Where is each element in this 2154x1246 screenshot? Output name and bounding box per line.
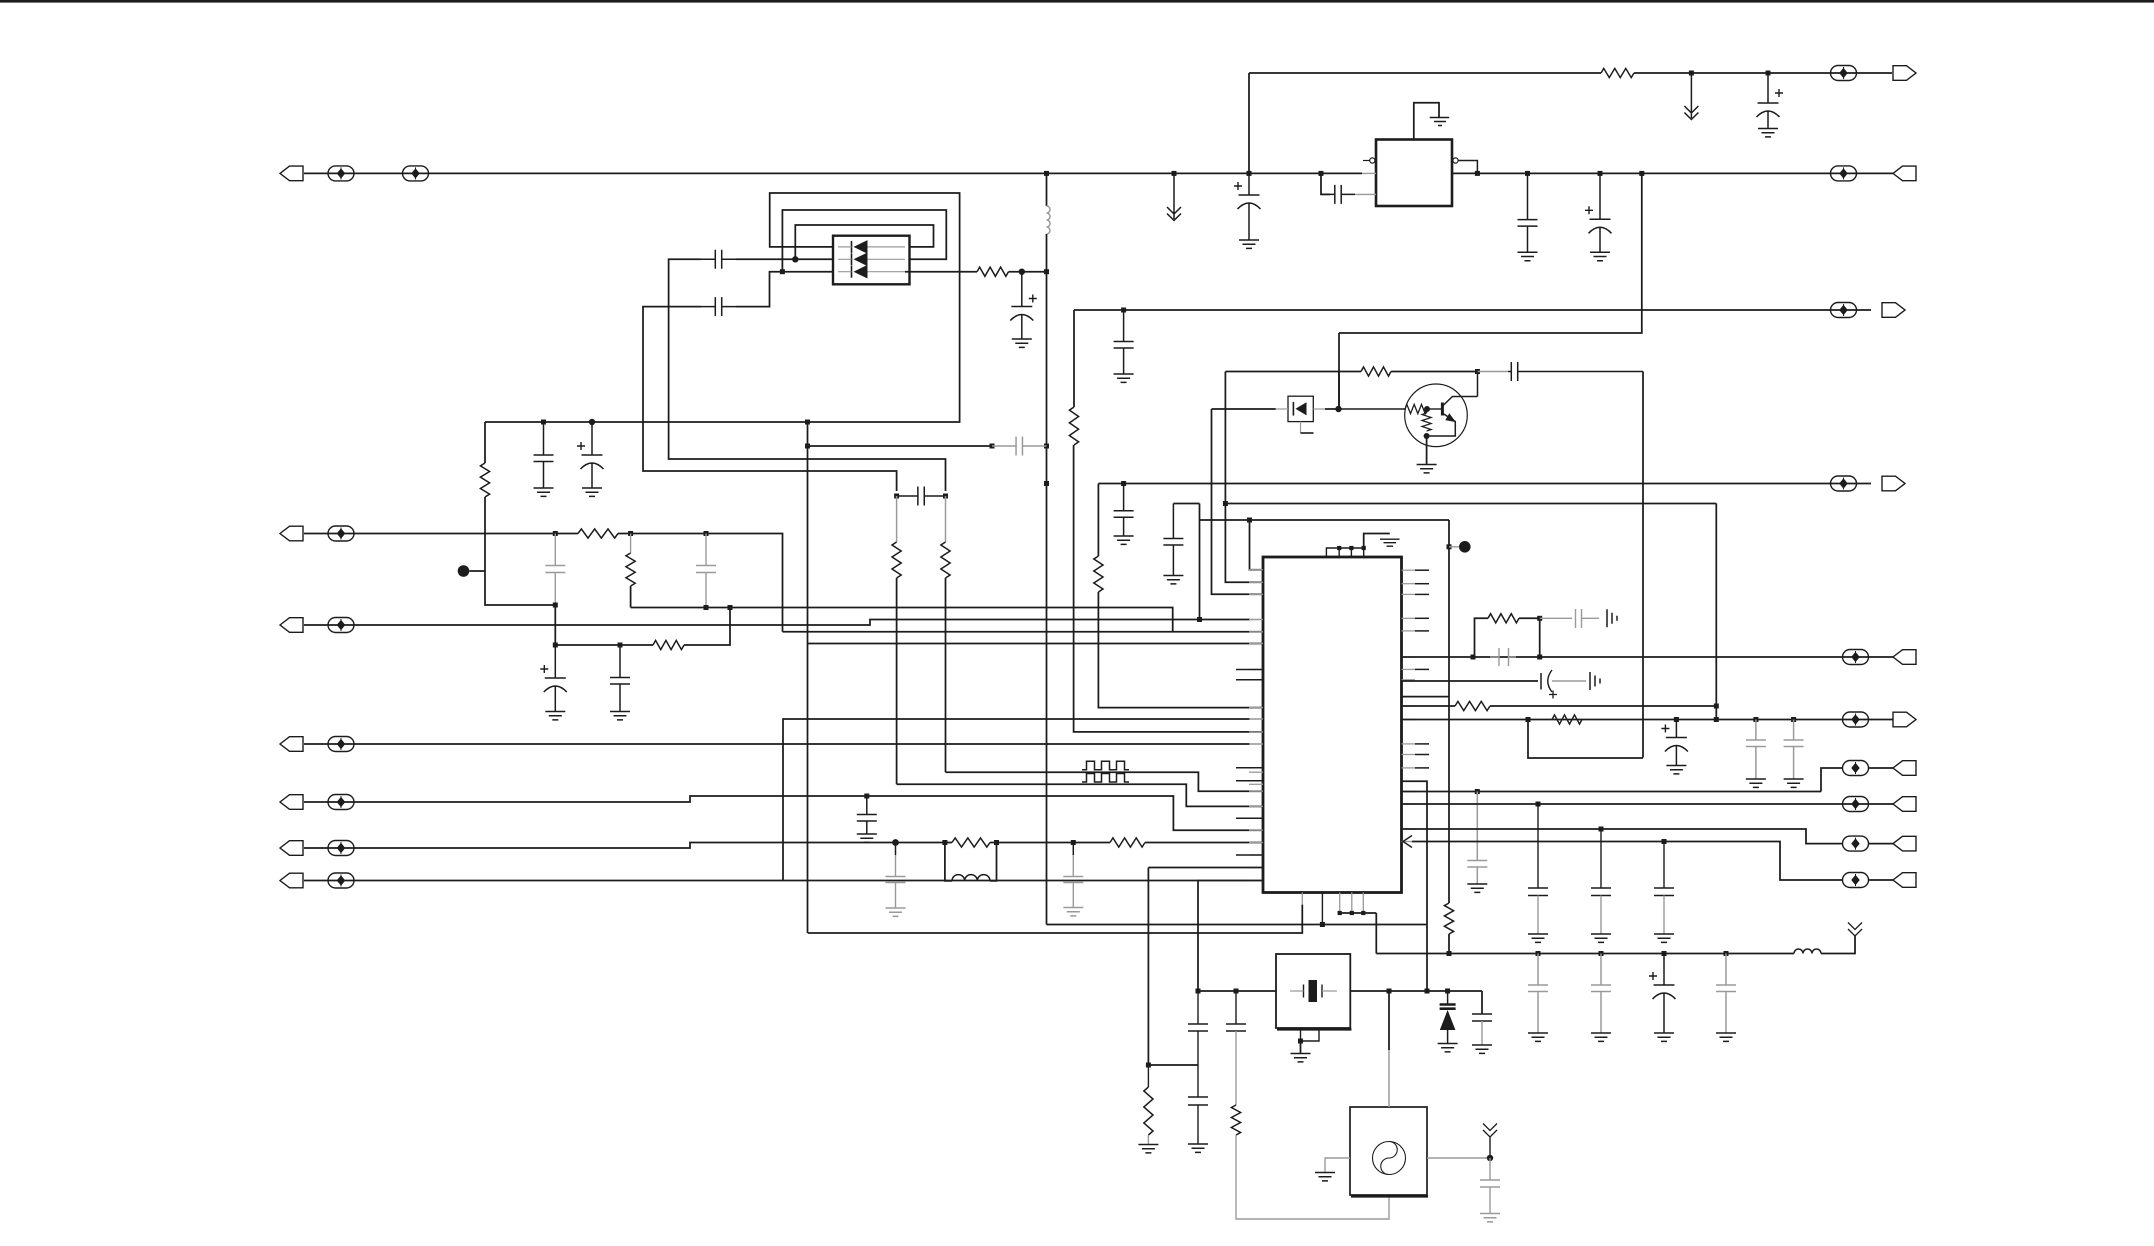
junction x555/645 bbox=[553, 643, 558, 648]
wire bus AVCC left bbox=[304, 172, 1362, 174]
ground G3 bbox=[1518, 252, 1538, 260]
oscillator X2 symbol bbox=[1373, 1142, 1406, 1175]
U1 left pin y731.9 bbox=[1249, 731, 1263, 733]
connector output arrow 1 bbox=[1893, 66, 1916, 81]
U1 right pin stub 570 bbox=[1415, 569, 1429, 571]
connector CN3 (left arrow) bbox=[280, 618, 303, 633]
ground C25 (sideways) bbox=[1590, 672, 1600, 690]
ground C30 bbox=[1528, 934, 1548, 942]
U1 left pin y818.3 bbox=[1249, 817, 1263, 819]
wire X2 out cap bbox=[1489, 1158, 1491, 1180]
inductor L1 bbox=[1047, 206, 1051, 234]
wire branch 758 bbox=[1528, 720, 1643, 759]
wire loop C left leg bbox=[736, 258, 795, 260]
capacitor C1 (electrolytic) bbox=[1758, 73, 1779, 103]
wire video out bbox=[1074, 309, 1871, 311]
wire w829 bbox=[1402, 829, 1844, 844]
U1 right pin stub 631 bbox=[1415, 630, 1429, 632]
wire x630 down bbox=[630, 534, 632, 554]
power arrow (double chevron) bbox=[1684, 73, 1698, 120]
junction w991/x1427 bbox=[1425, 989, 1430, 994]
junction bpins 1 bbox=[1338, 911, 1342, 915]
U1 left pin stub 680 bbox=[1236, 679, 1263, 681]
wire x945 to clock line bbox=[945, 578, 947, 772]
wire bias rail2 bbox=[1391, 371, 1478, 373]
node test pad bbox=[458, 565, 470, 577]
wire C31 stem bbox=[1600, 896, 1602, 935]
wire top pins to ground bbox=[1364, 534, 1390, 549]
junction w804/C30 bbox=[1536, 802, 1541, 807]
wire feed down2 bbox=[1046, 446, 1048, 484]
capacitor C12 (electrolytic) bbox=[1011, 272, 1032, 307]
diode pack D2 box bbox=[833, 236, 910, 285]
wire R19 down bbox=[1236, 1135, 1389, 1219]
resistor R10 bbox=[653, 640, 684, 649]
capacitor C16 (electrolytic) bbox=[545, 645, 566, 678]
U1 pin arrowhead bbox=[1403, 836, 1412, 848]
node pad bbox=[1459, 541, 1471, 553]
capacitor C30 bbox=[1528, 888, 1548, 896]
wire x1199 riser bbox=[1199, 504, 1201, 620]
ground G1 bbox=[1239, 240, 1259, 248]
wire row446 bbox=[808, 445, 993, 447]
wire C24 to ground bbox=[1582, 617, 1600, 619]
wire choke to diode row bbox=[1046, 234, 1048, 272]
junction w483/C22 bbox=[1121, 481, 1126, 486]
wire w1065 bbox=[1148, 1064, 1198, 1066]
ground C38 bbox=[1472, 1045, 1492, 1053]
wire drop x807 long bbox=[807, 446, 809, 933]
junction row446/C11 bbox=[990, 444, 995, 449]
U1 left pin y669.5 bbox=[1249, 669, 1263, 671]
U1 right pin y630.9 bbox=[1402, 630, 1416, 632]
capacitor C41 bbox=[1226, 1024, 1246, 1031]
junction w953/R13 bbox=[1447, 951, 1452, 956]
test point TP11 bbox=[328, 873, 354, 888]
wire top rail bbox=[1249, 72, 1601, 74]
wire pin867 bbox=[1148, 867, 1263, 869]
wire bus to C2 bbox=[1321, 173, 1330, 194]
U1 right pin y781.2 bbox=[1402, 780, 1416, 782]
wire Q1 int R top bbox=[1426, 409, 1428, 413]
junction X2 out bbox=[1487, 1155, 1493, 1161]
U1 right pin y696.6 bbox=[1402, 696, 1416, 698]
wire w643 from drop x807 bbox=[808, 643, 1264, 645]
U1 right pin y767.9 bbox=[1402, 767, 1416, 769]
ground G15 bbox=[1746, 779, 1766, 787]
junction top pins 2 bbox=[1349, 546, 1353, 550]
wire R15 to b bbox=[1519, 618, 1540, 657]
wire x1236 bbox=[1235, 991, 1237, 1024]
junction w953/C36 bbox=[1724, 951, 1729, 956]
junction Q1 emitter node bbox=[1424, 433, 1430, 439]
junction C13 left bbox=[894, 494, 899, 499]
wire x1716 bbox=[1715, 504, 1717, 721]
U1 right pin stub 594 bbox=[1415, 593, 1429, 595]
junction L3/riser bbox=[1197, 617, 1202, 622]
wire R10 row bbox=[1869, 879, 1893, 881]
transistor Q1 emitter arrowhead bbox=[1445, 413, 1456, 422]
wire x1538 upper bbox=[1537, 804, 1539, 888]
wire riser to top rail bbox=[1248, 73, 1250, 173]
junction rail/C1 bbox=[1766, 71, 1771, 76]
capacitor C19 bbox=[886, 877, 906, 883]
U1 left pin stub 767 bbox=[1236, 767, 1263, 769]
wire C41 down bbox=[1235, 1031, 1237, 1105]
transistor Q1 circle bbox=[1405, 384, 1468, 447]
wire D1 lead inside bbox=[1276, 408, 1325, 410]
wire bpin bus bbox=[1340, 912, 1377, 914]
connector input arrow 7 bbox=[1893, 761, 1916, 776]
wire branch down bbox=[1339, 173, 1642, 333]
junction w657 b bbox=[1537, 655, 1542, 660]
wire w520 over IC bbox=[1200, 519, 1450, 521]
U1 right pin y706 bbox=[1402, 705, 1416, 707]
wire C38 corner bbox=[1481, 991, 1483, 1014]
connector input arrow 5 bbox=[1893, 650, 1916, 665]
U1 right pin stub 744 bbox=[1415, 743, 1429, 745]
test point TP7 bbox=[328, 618, 354, 633]
diode D2-1 bbox=[851, 241, 853, 253]
wire w953 bbox=[1376, 953, 1794, 955]
connector CN2 (left arrow) bbox=[280, 526, 303, 541]
junction w829/C31 bbox=[1599, 827, 1604, 832]
crystal X1 symbol bbox=[1304, 985, 1323, 998]
U1 right pin stub 618 bbox=[1415, 617, 1429, 619]
wire C20 stem2 bbox=[1072, 855, 1074, 908]
capacitor C18 bbox=[857, 796, 877, 834]
U1 top pin bus bbox=[1326, 548, 1363, 557]
U1 left pin y784.3 bbox=[1249, 783, 1263, 785]
capacitor C22 bbox=[1114, 484, 1134, 537]
wire diode row3 out bbox=[905, 271, 977, 273]
test point TP1 bbox=[328, 166, 354, 181]
wire x555 605-645 bbox=[554, 605, 556, 645]
junction Q1 base bbox=[1424, 406, 1430, 412]
wire L2 b bbox=[618, 534, 783, 632]
ground G4 bbox=[1590, 252, 1610, 260]
wire L6 bbox=[304, 843, 952, 849]
capacitor C2 bbox=[1321, 185, 1355, 204]
ground U2 top bbox=[1430, 118, 1450, 126]
wire L5 bbox=[304, 796, 1263, 830]
ground G13 bbox=[1114, 536, 1134, 544]
junction loopA/C8 bbox=[589, 419, 595, 425]
connector CN6 (left arrow) bbox=[280, 841, 303, 856]
wire w607 bbox=[631, 608, 1173, 632]
ground D3 bbox=[1438, 1044, 1458, 1052]
ground C40 bbox=[1188, 1144, 1208, 1152]
U1 right pin stub 584 bbox=[1415, 583, 1429, 585]
wire feed down bbox=[1046, 272, 1048, 446]
wire C19 stem bbox=[895, 843, 897, 856]
junction rail618 bbox=[1537, 616, 1542, 621]
junction bpins 2 bbox=[1350, 911, 1354, 915]
ground G16 bbox=[1784, 779, 1804, 787]
test point TP6 bbox=[328, 526, 354, 541]
U1 right pin y618.3 bbox=[1402, 617, 1416, 619]
signal squiggle glyph 1 bbox=[1082, 761, 1129, 770]
ground Q1 bbox=[1417, 465, 1437, 473]
connector CN4 (left arrow) bbox=[280, 737, 303, 752]
resistor R1 bbox=[1601, 68, 1634, 77]
capacitor C28 bbox=[1784, 720, 1804, 780]
signal squiggle glyph 2 bbox=[1082, 774, 1129, 783]
wire X2 top pin bbox=[1388, 991, 1390, 1050]
wire X2 right pin bbox=[1427, 1157, 1490, 1159]
U1 left pin y619.5 bbox=[1249, 619, 1263, 621]
regulator U2 bbox=[1376, 140, 1452, 207]
capacitor C23 bbox=[1490, 648, 1516, 666]
ground C19 bbox=[886, 908, 906, 916]
ground G17 bbox=[1467, 884, 1487, 892]
U1 left pin y569.7 bbox=[1249, 569, 1263, 571]
resistor R7 bbox=[941, 542, 950, 578]
wire D2-1 leads bbox=[838, 246, 905, 248]
U1 left pin stub 780 bbox=[1236, 780, 1263, 782]
wire w681 bbox=[1402, 680, 1539, 682]
U1 left pin stub 855 bbox=[1236, 854, 1263, 856]
capacitor C38 bbox=[1472, 1014, 1492, 1021]
wire C30 stem bbox=[1537, 896, 1539, 935]
junction RL right bbox=[994, 840, 999, 845]
wire w310 corner down x1074 bbox=[1073, 310, 1075, 407]
U1 bottom pin x1322 bbox=[1321, 893, 1323, 925]
U1 right pin y743.9 bbox=[1402, 743, 1416, 745]
junction loopA/drop bbox=[805, 420, 810, 425]
U1 left pin y594.3 bbox=[1249, 593, 1263, 595]
junction w953/C34 bbox=[1599, 951, 1604, 956]
U1 right pin stub 768 bbox=[1415, 767, 1429, 769]
capacitor C29 bbox=[1467, 792, 1487, 885]
junction w719/C27 bbox=[1753, 717, 1758, 722]
oscillator X2 shadow bbox=[1351, 1195, 1428, 1197]
U1 left pin y880.5 bbox=[1249, 880, 1263, 882]
wire X2 top pin gray bbox=[1388, 1050, 1390, 1107]
capacitor C13 bbox=[897, 487, 946, 506]
wire base feed left bbox=[1212, 408, 1276, 410]
wire x896 to clock line bbox=[896, 578, 898, 784]
junction loopA/C7 bbox=[541, 420, 546, 425]
wire Q1 base lead bbox=[1427, 408, 1441, 410]
oscillator module X2 box bbox=[1350, 1107, 1427, 1195]
resistor R4 bbox=[480, 463, 489, 497]
junction collector node bbox=[1475, 369, 1480, 374]
junction R5/C12 bbox=[1019, 269, 1025, 275]
ground C32 bbox=[1654, 934, 1674, 942]
junction row446 left bbox=[805, 444, 810, 449]
wire sq1 bbox=[946, 772, 1264, 791]
test point TP15 bbox=[1843, 761, 1869, 776]
junction w842/C20 bbox=[1071, 840, 1076, 845]
wire x1449 long bbox=[1448, 520, 1450, 903]
wire w719 gray tip bbox=[1250, 718, 1263, 720]
ground C20 bbox=[1063, 908, 1083, 916]
junction L2/R9 bbox=[628, 531, 633, 536]
wire w503 bbox=[1225, 503, 1716, 505]
wire w991 right bbox=[1350, 990, 1482, 992]
wire pad stub bbox=[1449, 546, 1459, 548]
resistor R15 bbox=[1488, 614, 1519, 623]
resistor R12 bbox=[1110, 838, 1145, 847]
connector input arrow 9 bbox=[1893, 836, 1916, 851]
resistor R3 bbox=[1361, 367, 1391, 376]
connector CN5 (left arrow) bbox=[280, 795, 303, 810]
junction loopB bbox=[780, 269, 785, 274]
wire D2-3 leads bbox=[838, 271, 905, 273]
junction bus/arrow bbox=[1172, 171, 1177, 176]
transistor Q1 base bar bbox=[1441, 403, 1444, 416]
crystal X1 shadow bbox=[1277, 1028, 1352, 1030]
U1 left pin y830.2 bbox=[1249, 829, 1263, 831]
capacitor C32 bbox=[1654, 888, 1674, 896]
wire bus drop x1046 bbox=[1046, 173, 1048, 206]
ground G19 bbox=[1591, 1033, 1611, 1041]
ground G8 bbox=[1012, 339, 1032, 347]
ground U1 top bbox=[1380, 539, 1400, 546]
wire R12 to IC bbox=[1145, 842, 1263, 844]
junction top pins 3 bbox=[1362, 546, 1366, 550]
wire C20 stem bbox=[1072, 843, 1074, 856]
U1 left pin stub 818 bbox=[1236, 817, 1263, 819]
junction w953/C35 bbox=[1662, 951, 1667, 956]
capacitor C40 bbox=[1188, 1097, 1208, 1105]
wire R13 down bbox=[1448, 934, 1450, 954]
wire w842 to R12 bbox=[1074, 842, 1110, 844]
junction w719/x1716 bbox=[1714, 717, 1719, 722]
junction w791/C29 bbox=[1475, 789, 1480, 794]
capacitor C26 (electrolytic) bbox=[1666, 720, 1687, 738]
capacitor C6 bbox=[1508, 362, 1521, 381]
IC U1 (main processor) bbox=[1263, 557, 1402, 893]
test point TP13 bbox=[1843, 650, 1869, 665]
wire RC riser a bbox=[1475, 618, 1489, 657]
junction bus/C3 bbox=[1525, 171, 1530, 176]
resistor R13 bbox=[1444, 903, 1453, 934]
wire drop x730 bbox=[684, 608, 730, 646]
wire w791 bbox=[1402, 791, 1822, 793]
ground G2 bbox=[1758, 129, 1778, 137]
wire X1 bottom stub bbox=[1301, 1028, 1320, 1041]
wire L4 bbox=[304, 743, 1250, 745]
wire w483 drop bbox=[1097, 484, 1099, 557]
resistor Q1 internal R bbox=[1422, 413, 1431, 431]
ground G18 bbox=[1528, 1033, 1548, 1041]
wire R7 row bbox=[1869, 767, 1893, 769]
capacitor C7 bbox=[534, 422, 554, 488]
top border bar bbox=[0, 0, 2154, 3]
wire x1601 bbox=[1600, 829, 1602, 888]
wire feed down3 bbox=[1046, 484, 1048, 925]
wire base to Q1 bbox=[1339, 408, 1406, 410]
wire R10 left bbox=[555, 644, 653, 646]
junction w607/drop bbox=[728, 605, 733, 610]
wire L3 gray tip bbox=[1250, 619, 1263, 621]
junction bus/U2 out bbox=[1475, 171, 1480, 176]
wire R16 right bbox=[1490, 705, 1716, 707]
resistor R17 bbox=[1552, 715, 1582, 724]
U1 right pin y754.5 bbox=[1402, 754, 1416, 756]
wire Q1 emitter to ground bbox=[1426, 436, 1428, 464]
test point TP12 bbox=[1831, 476, 1857, 491]
connector input arrow 10 bbox=[1893, 873, 1916, 888]
capacitor C21 bbox=[1163, 504, 1183, 576]
wire w719 bbox=[1402, 719, 1894, 721]
wire X1 gnd stem bbox=[1300, 1041, 1302, 1053]
capacitor C27 bbox=[1746, 720, 1766, 780]
U1 right pin y570.2 bbox=[1402, 569, 1416, 571]
U1 left pin y791.2 bbox=[1249, 790, 1263, 792]
capacitor C3 bbox=[1518, 173, 1538, 252]
capacitor C4 (electrolytic) bbox=[1590, 173, 1611, 219]
U1 right pin y841.5 bbox=[1402, 841, 1416, 843]
test point TP5 bbox=[1831, 303, 1857, 318]
test point TP4 bbox=[1831, 166, 1857, 181]
wire L3 bbox=[304, 620, 1250, 626]
wire x1664 bbox=[1663, 842, 1665, 889]
junction w719/branch bbox=[1526, 717, 1531, 722]
junction L2/C15 bbox=[704, 531, 709, 536]
wire loop B left leg bbox=[736, 272, 782, 307]
U1 left pin y643.5 bbox=[1249, 643, 1263, 645]
wire L4 branch x783 bbox=[783, 719, 1250, 744]
U1 left pin y707.6 bbox=[1249, 707, 1263, 709]
transistor Q1 collector bbox=[1443, 372, 1478, 406]
connector input arrow 2 bbox=[1893, 166, 1916, 181]
capacitor C36 bbox=[1716, 954, 1736, 1034]
U1 left pin stub 669 bbox=[1236, 669, 1263, 671]
inductor L2 bbox=[952, 875, 990, 881]
U1 left pin y806.4 bbox=[1249, 805, 1263, 807]
U1 left pin y855 bbox=[1249, 854, 1263, 856]
wire bus stub into U2 bbox=[1362, 172, 1376, 174]
ground G21 bbox=[1716, 1033, 1736, 1041]
wire cap to branch bbox=[1521, 371, 1643, 373]
resistor R5 bbox=[977, 267, 1009, 276]
resistor R18 bbox=[1144, 1087, 1153, 1135]
test point TP3 bbox=[1831, 66, 1857, 81]
capacitor C39 bbox=[1188, 1024, 1208, 1031]
capacitor C42 bbox=[1480, 1180, 1500, 1187]
wire drop x807 to row446 bbox=[807, 422, 809, 446]
wire w697 bbox=[1402, 696, 1450, 698]
U1 right pin y804 bbox=[1402, 803, 1416, 805]
test point TP9 bbox=[328, 795, 354, 810]
junction bus/choke bbox=[1044, 171, 1049, 176]
test point TP10 bbox=[328, 841, 354, 856]
junction w841/C32 bbox=[1662, 839, 1667, 844]
U1 left pin y679.8 bbox=[1249, 679, 1263, 681]
capacitor C34 bbox=[1591, 954, 1611, 1034]
wire x945 down bbox=[945, 496, 947, 542]
ground G6 bbox=[534, 488, 554, 496]
wire R18 to gnd bbox=[1147, 1135, 1149, 1144]
junction w520/pin570 bbox=[1247, 518, 1252, 523]
wire w706 bbox=[1402, 705, 1456, 707]
wire R9 row bbox=[1869, 843, 1893, 845]
junction w657 a bbox=[1471, 655, 1476, 660]
resistor R6 bbox=[892, 542, 901, 578]
junction w991/zener bbox=[1445, 989, 1450, 994]
resistor R19 bbox=[1231, 1105, 1240, 1135]
junction x1198/crystal bbox=[1196, 989, 1201, 994]
wire R5 to node bbox=[1009, 271, 1047, 273]
capacitor C11 bbox=[992, 437, 1047, 456]
wire D1 bottom stub bbox=[1300, 422, 1302, 433]
junction L5/C18 bbox=[864, 794, 869, 799]
U1 right pin y829 bbox=[1402, 828, 1416, 830]
capacitor C5 bbox=[1114, 310, 1134, 374]
